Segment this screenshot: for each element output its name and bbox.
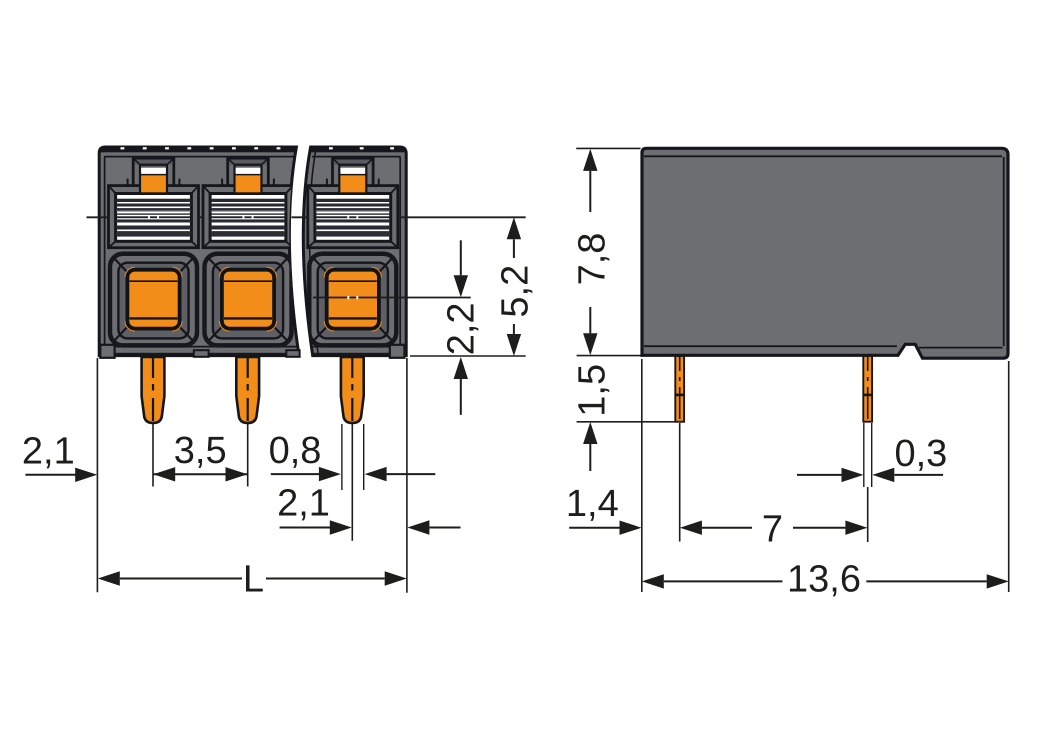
ext housing bottom right (410, 355, 526, 357)
ext box right lower (1008, 361, 1010, 592)
side bottom inner line (644, 345, 897, 347)
housing bottom edge band (97, 353, 300, 357)
ext side bottom (577, 355, 641, 357)
housing right inner line (399, 157, 401, 344)
svg-text:0,3: 0,3 (894, 433, 947, 475)
ext side pin2 center (867, 487, 869, 542)
ext housing right edge (406, 358, 408, 593)
dim 7,8 (583, 149, 597, 171)
ext pin2 center (247, 424, 249, 487)
svg-text:13,6: 13,6 (787, 559, 861, 601)
right foot (390, 345, 405, 358)
front pin 1 (142, 357, 165, 424)
dim 0,3 (797, 474, 842, 476)
svg-text:5,2: 5,2 (495, 265, 537, 318)
svg-text:7,8: 7,8 (572, 233, 614, 286)
pole 1 (109, 158, 294, 346)
side bottom-right foot line (919, 347, 1003, 349)
ext pin3 edges (341, 424, 343, 490)
front pin 2 (236, 357, 259, 424)
svg-text:0,8: 0,8 (269, 430, 322, 472)
dim 13,6 (642, 574, 664, 588)
housing left inner line (104, 157, 106, 344)
bottom bump pole1/2 (194, 350, 209, 357)
ext side pin1 center (679, 423, 681, 542)
dim 7 (680, 521, 702, 535)
svg-text:2,2: 2,2 (440, 302, 482, 355)
front view housing right section (303, 147, 406, 356)
pole 3 (308, 158, 398, 346)
svg-text:7: 7 (762, 509, 783, 551)
top edge notches (121, 147, 395, 149)
side pin 2 (863, 356, 872, 422)
side pin 1 (675, 356, 684, 422)
housing top edge band (97, 146, 298, 152)
front pin 3 (341, 357, 364, 424)
dim 1,5 (583, 422, 597, 444)
dim 3,5 (153, 473, 248, 475)
svg-text:L: L (243, 559, 264, 601)
dim L (98, 571, 120, 585)
ext side top (576, 147, 640, 149)
centerline clamp level (87, 216, 109, 218)
dim 2,1 left (25, 474, 76, 476)
ext housing left edge (96, 358, 98, 592)
svg-text:1,4: 1,4 (566, 483, 619, 525)
svg-text:2,1: 2,1 (22, 431, 75, 473)
dim 5,2 (507, 217, 521, 239)
svg-text:2,1: 2,1 (277, 483, 330, 525)
dim 1,4 (569, 527, 619, 529)
front view housing left section (99, 147, 299, 356)
bottom bump near break (286, 350, 299, 357)
svg-text:3,5: 3,5 (174, 430, 227, 472)
dim 2,1 pin3 (280, 527, 331, 529)
housing bottom inner line (104, 346, 297, 348)
left foot (100, 345, 114, 358)
ext pin tip level (577, 421, 685, 423)
side view housing body (642, 148, 1008, 358)
ext pin3 center (351, 424, 353, 541)
centerline button level (313, 297, 471, 299)
dim 0,8 (271, 473, 319, 475)
svg-text:1,5: 1,5 (571, 364, 613, 417)
ext box left lower (641, 359, 643, 592)
side right inner line (1003, 157, 1005, 346)
dim 2,2 (460, 240, 462, 275)
side top inner line (644, 155, 1002, 157)
ext pin1 center (152, 424, 154, 487)
housing top inner line (104, 156, 294, 158)
pole 2 (203, 158, 293, 346)
inner line along break curve (310, 147, 319, 356)
ext side pin2 edges (863, 423, 865, 487)
